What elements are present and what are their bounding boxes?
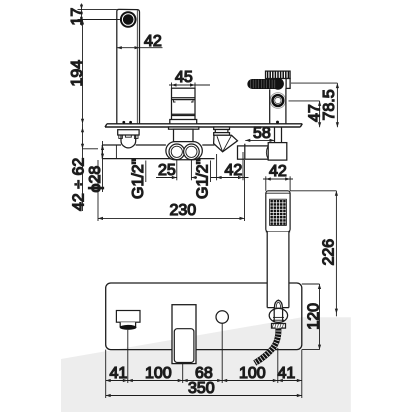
- deck plate side view: [105, 124, 302, 127]
- shower hose: [255, 328, 279, 364]
- svg-text:194: 194: [69, 60, 86, 87]
- svg-text:42: 42: [269, 163, 287, 180]
- bottom dims row1 line: [106, 379, 302, 382]
- holder knob circle: [270, 93, 286, 109]
- svg-text:100: 100: [239, 365, 266, 382]
- dim 230: [98, 160, 245, 221]
- inlet housing with two circles: [166, 142, 202, 160]
- svg-text:G1/2": G1/2": [130, 159, 147, 199]
- svg-text:42: 42: [225, 162, 243, 179]
- dim 17: [78, 4, 120, 26]
- dim 42 hand shower: [263, 176, 293, 191]
- drain knob front: [216, 311, 228, 323]
- dim 47: [289, 101, 322, 127]
- mounting bracket under spout: [118, 130, 139, 139]
- mixer handle front view: [172, 305, 196, 364]
- label G1/2 left: [130, 159, 147, 199]
- dim 78.5: [291, 83, 339, 127]
- outlet pipe to shower block: [238, 144, 269, 160]
- shower handle lever (black pill, side): [247, 78, 284, 90]
- svg-text:226: 226: [321, 239, 338, 266]
- shower connector: [269, 300, 287, 328]
- svg-text:120: 120: [305, 303, 322, 330]
- dim 226: [290, 191, 338, 316]
- label G1/2 right: [195, 159, 212, 199]
- svg-text:100: 100: [145, 365, 172, 382]
- svg-text:350: 350: [188, 380, 215, 397]
- svg-text:G1/2": G1/2": [195, 159, 212, 199]
- dim 45: [169, 83, 210, 89]
- labels 41 100 68 100 41: [110, 365, 296, 382]
- dim 120: [302, 284, 321, 350]
- dim 25: [156, 160, 197, 180]
- plate front view: [106, 283, 302, 350]
- svg-text:42 ÷ 62: 42 ÷ 62: [71, 158, 88, 211]
- svg-text:25: 25: [158, 162, 176, 179]
- svg-text:45: 45: [175, 69, 193, 86]
- shower stem under deck: [275, 127, 282, 143]
- hand shower handle front: [266, 232, 290, 308]
- svg-text:ϕ28: ϕ28: [87, 166, 104, 193]
- deck screws: [122, 121, 279, 124]
- dim 350 line: [106, 394, 302, 397]
- svg-text:41: 41: [278, 365, 296, 382]
- dim 42-62: [81, 124, 98, 211]
- svg-text:78.5: 78.5: [321, 89, 338, 120]
- hand shower head front: [266, 191, 290, 232]
- svg-text:58: 58: [253, 125, 271, 142]
- svg-text:230: 230: [170, 202, 197, 219]
- svg-text:42: 42: [144, 33, 162, 50]
- dim 42 spout: [117, 46, 163, 49]
- diverter cone: [214, 135, 238, 152]
- supply bell under spout: [121, 135, 136, 148]
- holder right tab: [286, 79, 290, 89]
- holder column: [270, 88, 286, 123]
- shadow band: [61, 317, 351, 412]
- bottom dims extension lines: [106, 323, 302, 398]
- cartridge column: [170, 88, 197, 124]
- shower outlet block: [268, 143, 287, 161]
- dim 58: [245, 139, 274, 142]
- body tube below deck: [102, 145, 214, 159]
- diverter stem: [214, 127, 230, 135]
- spout side view: [117, 9, 140, 123]
- spout aerator circle: [120, 11, 137, 28]
- shower holder head ribbed (side): [266, 71, 291, 78]
- dim 194: [81, 20, 84, 124]
- svg-text:41: 41: [110, 365, 128, 382]
- spray face grid: [270, 199, 287, 225]
- dim phi28: [101, 141, 104, 192]
- dim 42 diverter: [211, 152, 249, 180]
- spout front view: [116, 311, 140, 330]
- cartridge flange below deck: [169, 127, 199, 142]
